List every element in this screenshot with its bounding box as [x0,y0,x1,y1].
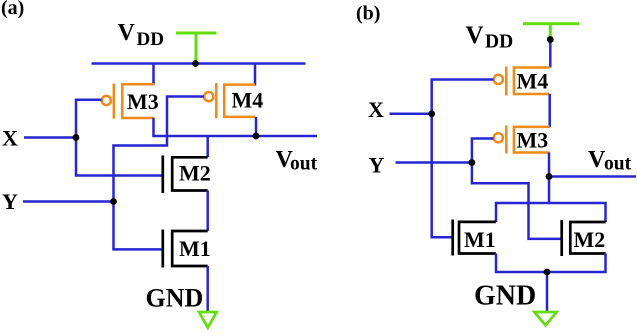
junction: X node dot (b) [428,110,435,117]
wire: M4 drain to output (a) [255,117,258,136]
wire: X input (b) [390,113,432,116]
wire: VDD to M4 source (b) [549,40,552,68]
svg-text:GND: GND [474,281,536,312]
wire: VDD rail (a) [92,62,306,65]
transistor M2 (NMOS, b) [562,220,606,256]
svg-text:V: V [118,20,136,46]
svg-text:M3: M3 [517,128,549,153]
svg-text:M1: M1 [179,236,211,261]
wire: Y input (b) [396,161,472,164]
ground symbol (b) [534,312,556,325]
wire: NMOS source rail to ground (b) [496,254,606,273]
svg-text:Y: Y [2,189,18,214]
wire: M3 drain + output line to Vout (a) [154,118,318,136]
svg-text:M4: M4 [517,69,549,94]
wire: Y input (a) [23,200,114,203]
wire: NMOS drain rail (b) [496,203,606,222]
wire: M4 source to rail (a) [254,64,257,86]
junction: output node dot (a) [253,133,260,140]
svg-text:X: X [2,126,18,151]
transistor M3 (PMOS, b) [494,126,550,154]
wire: X up to M3 gate (a) [76,100,102,138]
svg-text:M2: M2 [574,227,606,252]
wire: M3 drain to output (b) [548,153,551,177]
svg-text:X: X [368,97,384,122]
wire: Y down to M2 gate (b) [472,163,562,239]
transistor M1 (NMOS, b) [453,220,496,256]
transistor M4 (PMOS, a) [204,83,255,118]
svg-text:V: V [466,22,484,49]
svg-text:(a): (a) [1,0,24,19]
wire: X down to M1 gate (b) [432,114,453,238]
transistor M3 (PMOS, a) [102,84,155,119]
svg-text:DD: DD [137,29,164,50]
wire: M3 source to rail (a) [152,64,155,86]
wire: output line to Vout (b) [549,175,636,178]
wire: Y up to M3 gate (b) [472,139,494,163]
wire: X input (a) [24,136,76,139]
junction: Y node dot (b) [469,159,476,166]
svg-text:DD: DD [485,32,513,53]
wire: output down to NMOS drains (b) [548,177,551,204]
svg-text:out: out [604,154,632,175]
junction: Y node dot (a) [110,198,117,205]
svg-text:out: out [290,154,318,175]
wire: ground stem (b) [546,272,549,312]
transistor M1 (NMOS, a) [163,230,208,268]
svg-text:M1: M1 [464,227,496,252]
power symbol VDD (b) [523,24,579,38]
svg-text:GND: GND [146,284,204,313]
wire: Y up to M4 gate (a) [114,97,205,202]
wire: M1 source to ground (a) [206,266,209,312]
junction: VDD dot (b) [547,36,554,43]
wire: Y down to M1 gate (a) [114,202,163,250]
svg-text:M4: M4 [232,88,264,113]
power symbol VDD (a) [176,33,217,62]
svg-text:(b): (b) [356,3,380,25]
junction: VDD rail dot (a) [192,60,199,67]
svg-text:Y: Y [369,153,385,178]
wire: M2 source to M1 drain (a) [206,191,209,232]
ground symbol (a) [199,312,217,328]
transistor M2 (NMOS, a) [163,156,208,194]
wire: X down to M2 gate (a) [76,138,163,176]
svg-text:M3: M3 [127,89,159,114]
svg-text:M2: M2 [179,161,211,186]
wire: output down to M2 drain (a) [206,136,209,157]
junction: output node dot (b) [546,173,553,180]
junction: ground node dot (b) [544,269,551,276]
junction: X node dot (a) [73,134,80,141]
wire: M4 drain to M3 source (b) [548,94,551,127]
wire: X up to M4 gate (b) [432,80,494,114]
transistor M4 (PMOS, b) [494,67,550,96]
